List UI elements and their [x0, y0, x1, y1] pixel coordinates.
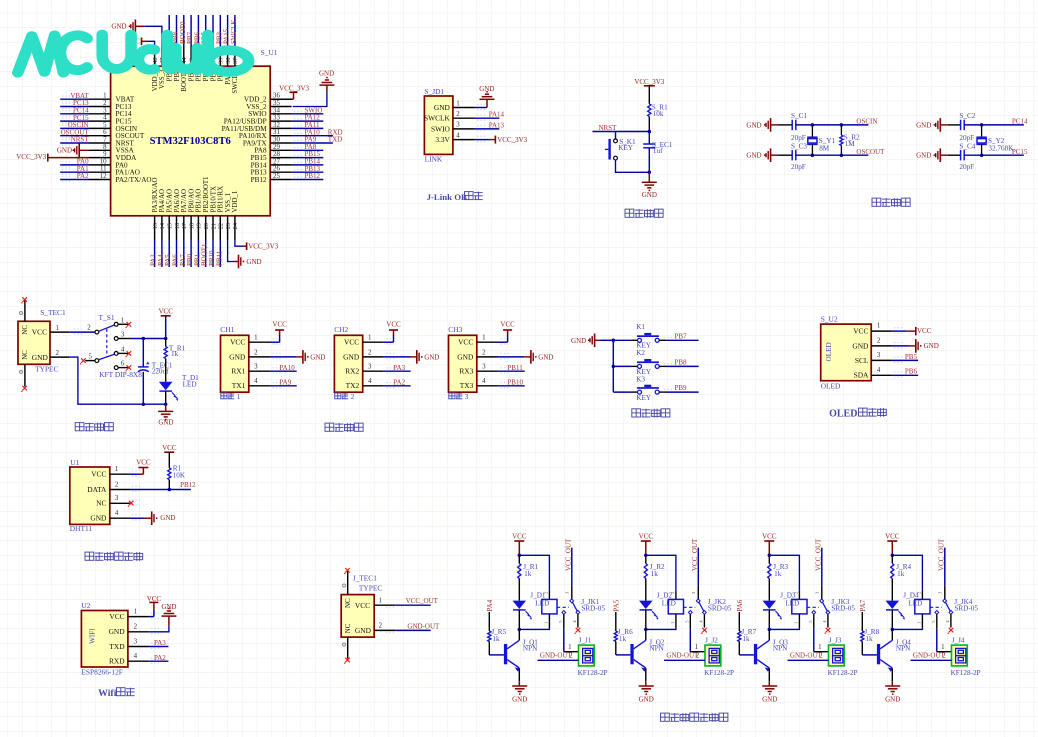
svg-text:2: 2 [134, 624, 138, 631]
svg-text:1k: 1k [619, 635, 627, 643]
svg-text:8M: 8M [819, 144, 830, 152]
svg-text:1: 1 [55, 325, 59, 332]
wire net PA2 [149, 660, 169, 662]
svg-text:PA2/TX/AO: PA2/TX/AO [116, 176, 152, 184]
svg-text:S_JD1: S_JD1 [424, 87, 444, 96]
title anjian dianlu [632, 409, 641, 417]
wire net PA13 [474, 128, 499, 130]
svg-text:PA10: PA10 [279, 364, 295, 372]
CH3 pin 2 GND [477, 356, 498, 358]
U1 bottom pin 21 PB10/TX [212, 216, 214, 240]
U1 pin 2 DATA [110, 489, 130, 491]
U2 pin 4 RXD [128, 660, 149, 662]
svg-text:S_U1: S_U1 [261, 48, 278, 57]
svg-text:U1: U1 [70, 458, 79, 467]
svg-text:10K: 10K [173, 472, 186, 480]
svg-text:GND: GND [916, 121, 931, 129]
svg-text:PA4: PA4 [486, 599, 494, 611]
resistor J_R2 1k [645, 555, 647, 563]
svg-text:GND: GND [885, 695, 900, 703]
wire + power VCC pin1 [270, 341, 280, 343]
svg-text:GND: GND [639, 695, 654, 703]
wire net BOOT0 [183, 15, 185, 45]
J_TEC1 NC stub bottom [347, 637, 349, 659]
ground at U1 top VSS_3 [144, 26, 162, 45]
U1 pin 1 VCC [110, 473, 130, 475]
wire net GND-OUT [664, 659, 705, 661]
svg-text:PA2: PA2 [393, 378, 405, 386]
svg-text:16: 16 [174, 223, 181, 229]
power VCC_3V3 at U1 pin36 [270, 98, 293, 100]
svg-text:PC15: PC15 [1012, 148, 1028, 156]
svg-text:GND: GND [746, 152, 761, 160]
svg-text:S_C1: S_C1 [791, 112, 807, 120]
CH3 pin 1 VCC [477, 341, 498, 343]
svg-text:J_J2: J_J2 [705, 636, 718, 644]
wire net PA5 [168, 240, 170, 267]
svg-text:KEY: KEY [636, 394, 652, 402]
svg-text:VCC: VCC [136, 459, 151, 467]
wire net PB6 [197, 15, 199, 45]
no-connect pin3 [129, 502, 131, 504]
svg-text:OLED: OLED [825, 342, 833, 361]
wire net PB9 [168, 15, 170, 45]
svg-text:GND: GND [852, 341, 869, 350]
svg-text:LED: LED [662, 599, 676, 607]
svg-text:PB0/AO: PB0/AO [188, 189, 195, 213]
svg-text:OSCIN: OSCIN [856, 118, 877, 126]
svg-text:VCC: VCC [158, 308, 173, 316]
relay switch [807, 606, 819, 608]
wire to relay coil [519, 555, 549, 590]
CH1 pin 2 GND [249, 356, 270, 358]
switch pin4 no-connect [577, 614, 579, 627]
svg-text:VCC: VCC [512, 533, 527, 541]
svg-text:LED: LED [535, 599, 549, 607]
svg-text:GND: GND [246, 258, 261, 266]
wire net PA2 [60, 179, 89, 181]
svg-text:1: 1 [482, 335, 486, 342]
wire net PB11 pin3 [498, 370, 525, 372]
wire [964, 124, 1024, 126]
switch pin5 to terminal [563, 614, 565, 629]
key K1 KEY [613, 339, 631, 341]
svg-text:2: 2 [103, 100, 107, 107]
svg-text:TXD: TXD [328, 136, 342, 144]
svg-text:GND: GND [916, 152, 931, 160]
svg-text:GND: GND [642, 191, 657, 199]
svg-text:J_J4: J_J4 [952, 636, 965, 644]
svg-text:1: 1 [941, 644, 945, 651]
svg-text:TYPEC: TYPEC [359, 584, 382, 593]
svg-text:S_U2: S_U2 [821, 315, 838, 324]
svg-text:32: 32 [273, 122, 280, 129]
svg-text:3: 3 [115, 495, 119, 502]
svg-text:PB5: PB5 [905, 353, 918, 361]
svg-text:PA3: PA3 [393, 364, 405, 372]
svg-text:SCL: SCL [855, 356, 869, 365]
svg-text:NC: NC [345, 598, 352, 608]
svg-text:3: 3 [456, 122, 460, 129]
U1 left pin 5 OSCIN [89, 127, 111, 129]
CH2 pin 4 TX2 [363, 385, 384, 387]
connector S_TEC1 TYPEC body [18, 321, 50, 364]
U2 pin 1 VCC [128, 616, 149, 618]
svg-text:19: 19 [196, 223, 203, 229]
svg-text:PB2/BOOT1: PB2/BOOT1 [203, 176, 210, 213]
svg-text:6: 6 [103, 129, 107, 136]
wire + ground pin2 [270, 356, 297, 358]
svg-text:22: 22 [218, 223, 225, 229]
U1 bottom pin 19 PB1/AO [197, 216, 199, 240]
ground [518, 681, 520, 686]
svg-text:TX2: TX2 [346, 381, 360, 390]
ground [891, 681, 893, 686]
svg-text:6: 6 [121, 361, 125, 368]
svg-text:1k: 1k [742, 635, 750, 643]
wire net PA6 [176, 240, 178, 267]
svg-text:WIFI: WIFI [88, 628, 96, 644]
wire net PC13 [60, 106, 89, 108]
wire net PB11 [219, 240, 221, 267]
label 3 [449, 393, 455, 399]
svg-text:2: 2 [115, 481, 119, 488]
U1 pin 4 GND [110, 517, 130, 519]
CH2 pin 2 GND [363, 356, 384, 358]
svg-text:GND: GND [158, 418, 173, 426]
resistor S_R2 1M [840, 123, 844, 127]
svg-text:VCC: VCC [639, 533, 654, 541]
svg-text:LINK: LINK [425, 154, 443, 163]
ground [645, 681, 647, 686]
wire net PA0 [60, 164, 89, 166]
wire net PB6 [892, 374, 918, 376]
U1 right pin 34 SWIO [270, 113, 291, 115]
U1 left pin 3 PC14 [89, 113, 111, 115]
crystal S_Y2 32.768K [980, 123, 984, 127]
svg-text:3: 3 [482, 364, 486, 371]
J_TEC1 NC stub top [347, 571, 349, 594]
svg-text:K3: K3 [636, 375, 645, 383]
U1 right pin 35 VSS_2 [270, 106, 291, 108]
svg-text:4: 4 [482, 378, 486, 385]
svg-text:T_S1: T_S1 [99, 313, 115, 322]
wire net PB5 [205, 15, 207, 45]
relay J_JK1 SRD-05 coil [542, 599, 557, 614]
ground [768, 681, 770, 686]
svg-text:20: 20 [203, 223, 210, 229]
wire net PC14 [60, 113, 89, 115]
svg-text:K2: K2 [636, 349, 645, 357]
relay J_JK4 SRD-05 coil [915, 599, 930, 614]
svg-text:VCC: VCC [147, 595, 162, 603]
sensor U1 DHT11 body [70, 467, 110, 524]
svg-text:VCC: VCC [386, 321, 401, 329]
svg-text:PB8: PB8 [675, 358, 688, 366]
svg-text:PA5/AO: PA5/AO [167, 189, 174, 213]
title fuwei dianlu [625, 209, 634, 217]
U1 top pin 40 PB4 [212, 45, 214, 66]
wire + ground pin2 [892, 345, 909, 347]
svg-text:2: 2 [254, 349, 258, 356]
transistor J_Q2 NPN [645, 629, 647, 640]
svg-text:34: 34 [273, 107, 280, 114]
switch pin4 no-connect [703, 614, 705, 627]
svg-text:4: 4 [134, 653, 138, 660]
svg-text:7: 7 [103, 137, 107, 144]
svg-text:PC14: PC14 [1012, 118, 1028, 126]
wire net BOOT1 [205, 240, 207, 267]
module S_U2 OLED body [821, 324, 872, 381]
svg-text:17: 17 [181, 223, 188, 229]
svg-text:KF128-2P: KF128-2P [951, 669, 981, 677]
wire + power VCC_3V3 at JD1 pin4 [474, 139, 490, 141]
JD1 pin 4 3.3V [453, 139, 474, 141]
svg-text:24: 24 [232, 222, 239, 229]
svg-text:NPN: NPN [649, 645, 664, 653]
wire net PA9 [292, 142, 333, 144]
label 1 [221, 393, 227, 399]
wire net PB7 [190, 15, 192, 45]
svg-text:VCC: VCC [885, 533, 900, 541]
svg-text:1: 1 [368, 335, 372, 342]
svg-text:4: 4 [115, 510, 119, 517]
ground [648, 172, 650, 182]
svg-text:KF128-2P: KF128-2P [578, 669, 608, 677]
svg-text:5: 5 [89, 353, 93, 360]
svg-text:VCC_3V3: VCC_3V3 [279, 85, 309, 93]
capacitor S_EC1 1uf [648, 132, 650, 145]
svg-text:20pF: 20pF [959, 163, 974, 171]
U1 top pin 43 PB7 [190, 45, 192, 66]
U2 pin 3 TXD [128, 646, 149, 648]
wire net NRST [593, 131, 650, 133]
relay switch [684, 606, 696, 608]
wire + ground pin4 [130, 517, 144, 519]
svg-text:GND: GND [90, 514, 107, 523]
node junction [648, 130, 652, 134]
svg-text:J-Link OB: J-Link OB [427, 192, 467, 202]
key K3 KEY [613, 391, 631, 393]
svg-text:VCC_3V3: VCC_3V3 [16, 153, 46, 161]
svg-text:37: 37 [232, 58, 239, 64]
svg-text:S_TEC1: S_TEC1 [40, 308, 66, 317]
svg-text:RX3: RX3 [459, 367, 473, 376]
svg-text:4: 4 [121, 346, 125, 353]
U1 bottom pin 15 PA5/AO [168, 216, 170, 240]
U1 bottom pin 20 PB2/BOOT1 [205, 216, 207, 240]
svg-text:2: 2 [87, 325, 91, 332]
CH3 pin 4 TX3 [477, 385, 498, 387]
svg-text:1: 1 [379, 597, 383, 604]
relay switch [930, 606, 942, 608]
svg-text:28: 28 [273, 151, 280, 158]
wire net PB3 [219, 15, 221, 45]
resistor J_R3 1k [768, 555, 770, 563]
wire net PB10 [212, 240, 214, 267]
svg-text:GND: GND [319, 70, 334, 78]
svg-text:SRD-05: SRD-05 [708, 604, 732, 612]
power VCC_3V3 at U1 pin24 VDD_1 [235, 240, 244, 246]
svg-text:PB10/TX: PB10/TX [210, 186, 217, 212]
switch pin4 no-connect [827, 614, 829, 627]
wire net SWIO [292, 113, 324, 115]
svg-text:PB9: PB9 [675, 384, 688, 392]
svg-text:GND: GND [160, 514, 175, 522]
svg-text:1k: 1k [492, 635, 500, 643]
svg-text:1: 1 [568, 644, 572, 651]
svg-text:20pF: 20pF [791, 134, 806, 142]
transistor J_Q3 NPN [768, 629, 770, 640]
key K2 KEY [613, 365, 631, 367]
svg-text:RX1: RX1 [231, 367, 245, 376]
wire net PA15 [227, 15, 229, 45]
U1 top pin 41 PB5 [205, 45, 207, 66]
resistor R1 10K [168, 468, 171, 480]
U1 bottom pin 24 VDD_1 [234, 216, 236, 240]
U2 pin 4 SDA [871, 374, 892, 376]
svg-text:20pF: 20pF [959, 134, 974, 142]
wire to relay coil [646, 555, 676, 590]
U1 right pin 26 PB13 [270, 171, 291, 173]
connector CH1 body [221, 335, 249, 392]
ground at U1 pin35 VSS_2 [293, 93, 327, 107]
svg-text:PB12: PB12 [180, 481, 196, 489]
svg-text:20pF: 20pF [791, 163, 806, 171]
svg-text:48: 48 [152, 58, 159, 64]
svg-text:VCC: VCC [272, 321, 287, 329]
svg-text:3: 3 [103, 107, 107, 114]
wire net PB12 [292, 179, 324, 181]
svg-text:GND: GND [343, 352, 360, 361]
wire net PB14 [292, 164, 324, 166]
power VCC_3V3 at U1 pin9 VDDA [47, 154, 49, 162]
svg-text:1k: 1k [651, 570, 659, 578]
U1 bottom pin 16 PA6/AO [176, 216, 178, 240]
crystal S_Y1 8M [811, 123, 815, 127]
svg-text:2: 2 [877, 338, 881, 345]
capacitor S_C3 20pF [791, 150, 793, 160]
svg-text:GND-OUT: GND-OUT [790, 652, 823, 660]
svg-text:PB11: PB11 [507, 364, 523, 372]
svg-text:ESP8266-12F: ESP8266-12F [81, 668, 122, 677]
svg-text:SRD-05: SRD-05 [581, 604, 605, 612]
svg-text:4: 4 [103, 115, 107, 122]
svg-text:GND: GND [762, 695, 777, 703]
TEC1 NC stub bottom [24, 364, 26, 386]
wire + ground pin2 [498, 356, 525, 358]
title dianyuan dianlu [75, 423, 84, 431]
relay switch [557, 606, 569, 608]
CH3 pin 3 RX3 [477, 370, 498, 372]
svg-text:SRD-05: SRD-05 [831, 604, 855, 612]
U1 right pin 31 PA10/RX [270, 135, 291, 137]
U2 pin 2 GND [871, 345, 892, 347]
U1 top pin 46 PB9 [168, 45, 170, 66]
svg-text:3: 3 [254, 364, 258, 371]
CH1 pin 1 VCC [249, 341, 270, 343]
relay J_JK3 SRD-05 coil [792, 599, 807, 614]
svg-text:3.3V: 3.3V [435, 135, 450, 144]
U1 top pin 48 VDD_3 [154, 45, 156, 66]
JD1 pin 2 SWCLK [453, 117, 474, 119]
connector S_JD1 LINK body [424, 96, 453, 154]
svg-text:2: 2 [456, 111, 460, 118]
svg-text:OSCOUT: OSCOUT [856, 148, 885, 156]
title jidianqi kongzhi dianlu [661, 713, 670, 721]
svg-text:2: 2 [351, 393, 355, 401]
wire net PA12 [292, 120, 324, 122]
svg-text:4: 4 [368, 378, 372, 385]
svg-text:NRST: NRST [599, 124, 618, 132]
wire + power VCC pin1 [149, 616, 154, 618]
switch S_K1 KEY [615, 132, 617, 139]
svg-text:VCC_3V3: VCC_3V3 [634, 78, 664, 86]
wire net PB5 [892, 359, 918, 361]
svg-text:J_TEC1: J_TEC1 [353, 573, 378, 582]
svg-text:SRD-05: SRD-05 [954, 604, 978, 612]
svg-text:J_J3: J_J3 [829, 636, 842, 644]
svg-text:26: 26 [273, 166, 280, 173]
svg-text:PA2: PA2 [154, 654, 166, 662]
svg-text:35: 35 [273, 100, 280, 107]
svg-text:1M: 1M [845, 140, 856, 148]
capacitor S_C2 20pF [960, 120, 962, 130]
relay J_JK2 SRD-05 coil [668, 599, 683, 614]
svg-text:GND-OUT: GND-OUT [666, 652, 699, 660]
svg-text:VCC: VCC [917, 327, 932, 335]
svg-text:CH1: CH1 [220, 325, 234, 334]
power VCC at U1 top VDD_3 [148, 41, 155, 45]
label 2 [335, 393, 341, 399]
svg-text:TX3: TX3 [460, 381, 474, 390]
connector J_TEC1 TYPEC body [341, 595, 374, 638]
svg-text:J_J1: J_J1 [579, 636, 592, 644]
svg-text:4: 4 [877, 367, 881, 374]
svg-text:5: 5 [103, 122, 107, 129]
wire net PA7 [183, 240, 185, 267]
svg-text:GND: GND [538, 353, 553, 361]
svg-text:10k: 10k [653, 110, 664, 118]
svg-text:2: 2 [482, 349, 486, 356]
svg-text:GND: GND [746, 121, 761, 129]
wire to relay coil [892, 555, 922, 590]
resistor S_R1 10k [648, 104, 651, 117]
wire net GND-OUT [538, 659, 579, 661]
svg-text:K1: K1 [636, 323, 645, 331]
wire to relay coil [769, 555, 799, 590]
U1 right pin 36 VDD_2 [270, 98, 291, 100]
svg-text:GND: GND [457, 352, 474, 361]
CH1 pin 3 RX1 [249, 370, 270, 372]
wire net OSCOUT [60, 135, 89, 137]
wire net PA3 pin3 [383, 370, 410, 372]
U1 left pin 9 VDDA [89, 157, 111, 159]
title wenshidu chuanganqi [85, 552, 94, 560]
svg-text:GND: GND [111, 23, 126, 31]
U1 top pin 45 PB8 [176, 45, 178, 66]
svg-text:10: 10 [100, 158, 107, 165]
svg-text:27: 27 [273, 158, 280, 165]
svg-text:VCC: VCC [230, 338, 245, 347]
svg-text:12: 12 [100, 173, 107, 180]
svg-text:13: 13 [152, 223, 159, 229]
svg-text:3: 3 [121, 332, 125, 339]
wire net PA4 [161, 240, 163, 267]
TEC1 NC stub top [24, 300, 26, 321]
svg-text:PB6: PB6 [905, 368, 918, 376]
U1 top pin 39 PB3 [219, 45, 221, 66]
